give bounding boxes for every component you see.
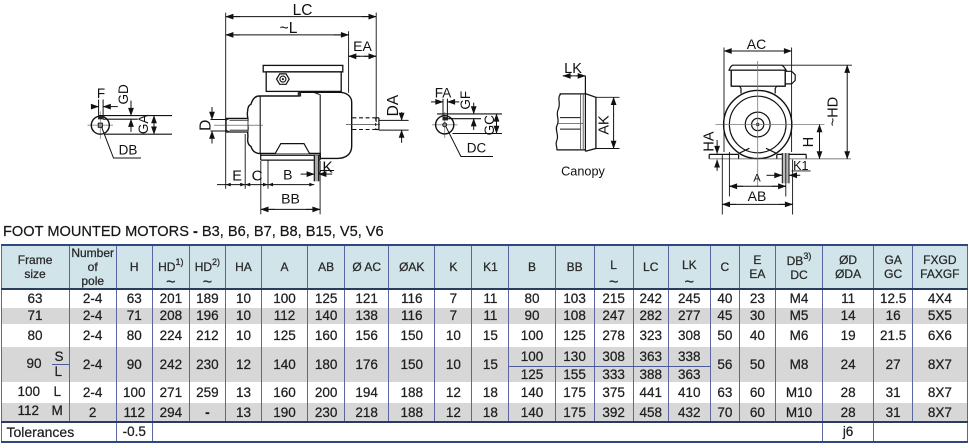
svg-text:AK: AK — [597, 115, 613, 135]
svg-text:LC: LC — [293, 2, 313, 19]
svg-text:HA: HA — [702, 131, 718, 151]
svg-text:K1: K1 — [793, 159, 808, 173]
svg-text:GC: GC — [482, 115, 497, 136]
svg-text:EA: EA — [353, 38, 372, 54]
svg-text:Canopy: Canopy — [561, 164, 605, 178]
svg-text:BB: BB — [281, 191, 300, 207]
svg-text:DC: DC — [467, 140, 487, 155]
svg-text:E: E — [232, 168, 242, 184]
svg-text:DA: DA — [385, 94, 402, 116]
svg-text:GF: GF — [458, 91, 473, 110]
svg-text:H: H — [801, 137, 817, 147]
svg-text:FA: FA — [435, 86, 452, 101]
svg-text:DB: DB — [119, 143, 138, 158]
svg-text:K: K — [322, 159, 333, 176]
svg-text:LK: LK — [564, 61, 582, 77]
svg-text:GD: GD — [116, 84, 131, 105]
svg-text:A: A — [753, 172, 761, 184]
svg-text:GA: GA — [136, 115, 151, 135]
svg-text:AB: AB — [748, 188, 767, 204]
svg-text:C: C — [252, 168, 263, 185]
svg-text:B: B — [283, 167, 292, 183]
svg-text:~HD: ~HD — [825, 97, 841, 126]
svg-text:F: F — [97, 86, 105, 101]
svg-text:~L: ~L — [280, 20, 298, 37]
svg-text:D: D — [197, 120, 214, 131]
svg-text:AC: AC — [747, 36, 766, 52]
